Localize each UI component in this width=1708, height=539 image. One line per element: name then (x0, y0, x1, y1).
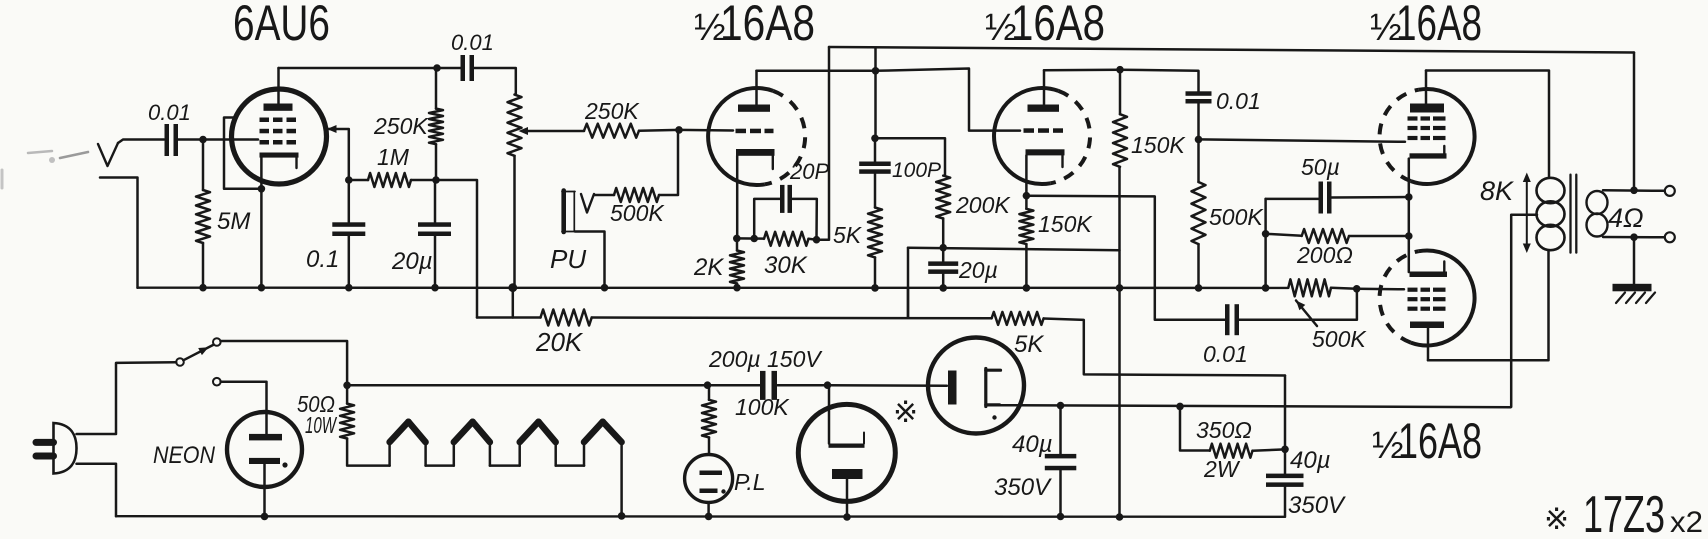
V4 plate bar (1410, 104, 1444, 113)
wire 6AU6 plate line (279, 67, 438, 70)
wire 150K1 bottom riser (1118, 167, 1121, 517)
wire to 200u cap (708, 384, 761, 387)
wire B+ line (1000, 405, 1511, 407)
node 200ohm left (1262, 230, 1270, 238)
V4 cathode lead (1408, 159, 1411, 197)
svg-text:30K: 30K (764, 252, 808, 279)
capacitor 40u 350V second (1266, 376, 1346, 520)
node secondary bottom (1630, 233, 1638, 241)
resistor 250K (plate load) (373, 68, 443, 180)
pot wiper arrow (1296, 301, 1317, 327)
P.L bottom lead (707, 503, 710, 517)
resistor 30K (764, 232, 817, 279)
terminal 4ohm top (1665, 186, 1675, 196)
wire grid node to 6AU6 grid (203, 138, 258, 141)
wire V3 plate line (1044, 68, 1120, 71)
tube V1 6AU6 envelope (232, 89, 327, 184)
svg-text:200µ 150V: 200µ 150V (708, 346, 823, 372)
label NEON (153, 442, 216, 469)
node 350ohm/40u2 (1281, 446, 1289, 454)
svg-text:20P: 20P (789, 159, 829, 184)
node rectifier V6 plate (824, 381, 832, 389)
tube V4 1/2 16A8 output upper (1380, 89, 1475, 184)
heater chain (390, 422, 622, 516)
label P.L (734, 469, 766, 495)
svg-text:NEON: NEON (153, 442, 216, 469)
node V3 cathode (1023, 192, 1031, 200)
node 5M to ground rail (199, 284, 207, 292)
node 40u1 ground (1057, 513, 1065, 521)
capacitor 50u (cathode bypass) (1266, 154, 1409, 214)
label half-16A8 lower (1372, 413, 1482, 469)
wiper arrow into pot (519, 127, 585, 135)
label 5K bottom (1014, 331, 1044, 358)
wire bias jog down (907, 248, 910, 318)
6AU6 grid dashes (260, 118, 297, 145)
wire to V2 grid (679, 129, 733, 132)
svg-text:6AU6: 6AU6 (233, 0, 330, 51)
svg-text:16A8: 16A8 (1011, 0, 1105, 51)
node V2 cathode (733, 235, 741, 243)
V5 grid dashes (1408, 288, 1446, 311)
wire rail tie-down (907, 288, 910, 318)
label 500K pot (1312, 326, 1367, 352)
svg-text:500K: 500K (610, 200, 665, 226)
V2 plate lead (755, 71, 758, 105)
V7 cathode bar (948, 371, 957, 405)
svg-text:5K: 5K (833, 222, 863, 248)
transformer secondary winding (1587, 191, 1608, 237)
resistor 150K (V3 plate load) (1113, 70, 1186, 167)
V6 cathode lead (846, 479, 849, 517)
node riser/ground-rail (1116, 284, 1124, 292)
switch throw contact (213, 338, 221, 346)
label 6AU6 (233, 0, 330, 51)
lamp NEON envelope (227, 412, 302, 487)
V3 grid dashes (1024, 128, 1064, 133)
wire 0.01 to volume pot (474, 68, 516, 95)
svg-text:350V: 350V (1288, 492, 1346, 519)
node 500K ground (1195, 284, 1203, 292)
node 200ohm right (1405, 232, 1413, 240)
resistor 150K (V3 cathode) (1019, 209, 1093, 288)
svg-text:10W: 10W (305, 412, 337, 438)
resistor 500K (PU mix) (594, 130, 678, 226)
node 40u1 top (1057, 402, 1065, 410)
6AU6 cathode bar (260, 153, 299, 169)
capacitor 0.01 (coupling to V4) (1186, 88, 1261, 139)
node 50ohm top (343, 382, 351, 390)
tube V5 1/2 16A8 output lower (1380, 250, 1475, 345)
switch hinge contact (176, 358, 184, 366)
wire primary center tap (1511, 215, 1537, 407)
svg-text:150K: 150K (1038, 211, 1093, 237)
node 2K ground (733, 284, 741, 292)
wire PU sleeve to ground (575, 232, 605, 288)
V6 plate lead (828, 385, 831, 443)
node PU ground (601, 284, 609, 292)
wire V2 plate to V3 grid (876, 69, 1021, 131)
tube V7 rectifier 17Z3 envelope (928, 338, 1024, 434)
wire V3 cathode to inverter (1026, 196, 1225, 320)
svg-text:※: ※ (893, 396, 918, 429)
resistor 50ohm 10W (297, 385, 390, 465)
svg-text:50µ: 50µ (1301, 154, 1340, 180)
ground rail (top section) (138, 287, 1289, 290)
label half-16A8 first (694, 0, 815, 51)
svg-text:250K: 250K (373, 113, 429, 139)
bottom rail (116, 515, 1285, 518)
node plate line / 250K (433, 64, 441, 72)
capacitor 20P loop (754, 159, 829, 240)
wire secondary top (1603, 189, 1665, 192)
node 100P top (871, 135, 879, 143)
wire feedback riser (817, 47, 830, 240)
wire secondary bottom (1603, 236, 1665, 239)
wire screen dropper line (477, 310, 1285, 376)
node 100K top (704, 381, 712, 389)
transformer core (1571, 175, 1577, 253)
wire into V7 (828, 384, 948, 387)
transformer primary winding (1537, 178, 1565, 250)
tube V2 1/2 16A8 envelope (708, 88, 805, 185)
wire screen tap with arrow (327, 125, 349, 180)
input ground lead (100, 178, 138, 288)
svg-text:2W: 2W (1203, 456, 1241, 482)
svg-text:350Ω: 350Ω (1196, 417, 1252, 443)
6AU6 plate bar (264, 104, 293, 111)
lamp P.L pilot (685, 455, 733, 503)
wire switched line (347, 384, 707, 387)
svg-text:4Ω: 4Ω (1608, 203, 1644, 233)
node 0.01/500K/grid (1195, 136, 1203, 144)
input jack tip symbol V (98, 143, 118, 166)
node 200K/20u (939, 244, 947, 252)
node NEON ground (261, 513, 269, 521)
svg-text:0.01: 0.01 (451, 30, 494, 55)
AC plug body (54, 423, 77, 474)
node 350ohm left (1176, 403, 1184, 411)
capacitor 0.01 (plate coupling) (451, 30, 494, 81)
svg-text:2K: 2K (693, 254, 724, 281)
node 0.1 ground (345, 284, 353, 292)
resistor 350ohm 2W (1180, 406, 1285, 482)
node 30K left (750, 235, 758, 243)
label 20K (535, 327, 584, 357)
switch blade (183, 345, 213, 360)
AC plug prongs (36, 442, 54, 456)
wire shared cathode to V5 (1408, 197, 1411, 272)
node 30K right (813, 236, 821, 244)
terminal 4ohm bottom (1665, 232, 1675, 242)
label 17Z3 note (1544, 486, 1703, 539)
svg-text:16A8: 16A8 (1398, 413, 1482, 469)
V3 cathode lead (1025, 155, 1028, 208)
V2 cathode bar (736, 149, 775, 169)
svg-text:8K: 8K (1480, 176, 1514, 206)
V2 plate bar (738, 105, 770, 112)
capacitor 100P (859, 138, 941, 207)
wire bias line 248 (908, 248, 1120, 251)
wire neon contact lead (221, 382, 267, 434)
svg-text:40µ: 40µ (1290, 447, 1331, 474)
node mix grid (675, 126, 683, 134)
svg-text:0.01: 0.01 (1216, 88, 1261, 114)
svg-text:500K: 500K (1312, 326, 1367, 352)
wire input to coupling cap (118, 140, 164, 144)
wire feedback down to secondary (1633, 53, 1636, 191)
8K impedance arrow (1480, 173, 1531, 254)
node V4 cathode/50u (1405, 193, 1413, 201)
resistor 200 ohm (shared cathode) (1266, 229, 1409, 268)
capacitor 20u (decoupling) (391, 180, 451, 288)
wire to V4 grid (1199, 139, 1406, 141)
node screen/0.1 (345, 176, 353, 184)
resistor 2K (V2 cathode) (693, 238, 744, 287)
6AU6 plate lead (277, 68, 280, 105)
node 5K ground (871, 284, 879, 292)
svg-text:40µ: 40µ (1012, 431, 1053, 458)
V6 plate bar (829, 433, 865, 448)
switch neon contact (213, 378, 221, 386)
resistor 5K (V2 plate chain) (833, 208, 882, 288)
potentiometer 500K (phase balance) (1288, 279, 1356, 296)
ground symbol (1613, 284, 1656, 303)
capacitor 40u 350V first (994, 406, 1076, 517)
potentiometer 250K volume (508, 95, 522, 318)
V3 cathode bar (1026, 149, 1065, 167)
node input grid (199, 136, 207, 144)
wire secondary to ground (1633, 237, 1636, 284)
node riser ground (1262, 284, 1270, 292)
label half-16A8 third (1370, 0, 1482, 51)
label 4 ohm (1608, 203, 1644, 233)
capacitor 0.01 (inverter feed) (1203, 304, 1248, 367)
svg-text:20µ: 20µ (958, 257, 998, 283)
resistor 100K (702, 385, 790, 454)
wire inverter cap to pot (1239, 289, 1357, 320)
wire cathode to 30K (737, 237, 764, 240)
node V6 ground (843, 513, 851, 521)
svg-text:20µ: 20µ (391, 248, 433, 275)
svg-text:1M: 1M (377, 144, 410, 170)
node B 1M/250K/20u (432, 176, 440, 184)
V7 plate bracket (986, 369, 1001, 420)
tube V3 1/2 16A8 envelope (994, 88, 1090, 184)
label PU (550, 244, 586, 274)
svg-text:200K: 200K (955, 192, 1011, 218)
svg-text:※: ※ (1544, 503, 1569, 536)
resistor 5M (grid leak) (196, 140, 250, 288)
node riser/bottom-rail (1116, 513, 1124, 521)
wire to 0.01 cap (437, 67, 461, 70)
wire switch to 50ohm (221, 341, 348, 385)
resistor 200K (936, 176, 1011, 248)
wire feedback top line (829, 47, 1634, 53)
V5 cathode bar (1410, 262, 1448, 278)
tube V6 rectifier 17Z3 envelope (798, 404, 895, 501)
V3 plate lead (1043, 70, 1046, 104)
node V2 plate (872, 67, 880, 75)
V6 cathode bar (832, 469, 863, 479)
reference mark for 17Z3 (893, 396, 918, 429)
wire V4 plate to transformer (1426, 71, 1549, 177)
svg-text:17Z3: 17Z3 (1583, 486, 1665, 539)
wire V5 plate to transformer (1428, 251, 1549, 360)
resistor 1M (screen dropper) (349, 144, 436, 187)
svg-text:PU: PU (550, 244, 586, 274)
svg-text:0.01: 0.01 (1203, 341, 1248, 367)
capacitor 200u 150V (708, 346, 823, 400)
wire plate to 0.01 (1120, 70, 1199, 92)
wire g3 tie to cathode (224, 118, 258, 189)
wire node to 200K (875, 138, 945, 175)
label half-16A8 second (985, 0, 1105, 51)
resistor 250K (radio mix) (584, 98, 679, 138)
capacitor 20u (second) (928, 248, 998, 288)
NEON electrodes (249, 434, 288, 468)
V4 plate lead (1425, 71, 1428, 104)
wire node B to dropper line (436, 180, 477, 318)
svg-text:350V: 350V (994, 474, 1052, 501)
node 20u ground (431, 284, 439, 292)
V4 grid dashes (1408, 116, 1446, 140)
svg-text:0.1: 0.1 (306, 246, 339, 273)
svg-text:100P: 100P (892, 159, 941, 182)
capacitor 0.01 (input coupling) (148, 100, 191, 156)
node cathode ground (258, 284, 266, 292)
PU jack symbol (562, 191, 594, 233)
svg-text:250K: 250K (584, 98, 640, 124)
V2 cathode lead (736, 156, 739, 239)
wire V2 plate line (757, 70, 876, 73)
svg-text:200Ω: 200Ω (1296, 242, 1353, 268)
svg-text:5M: 5M (217, 208, 250, 235)
wire cap to grid node (178, 138, 203, 141)
V2 grid dashes (736, 129, 774, 134)
node V3 plate (1116, 66, 1124, 74)
svg-text:500K: 500K (1209, 204, 1264, 230)
faint input-lead scan marks (2, 151, 88, 188)
svg-text:20K: 20K (535, 327, 584, 357)
svg-text:16A8: 16A8 (720, 0, 815, 51)
node heater to rail (618, 512, 626, 520)
node cathode/g3 junction (258, 185, 266, 193)
svg-text:150K: 150K (1131, 132, 1186, 158)
node secondary top (1630, 187, 1638, 195)
V4 cathode bar (1410, 146, 1447, 159)
svg-text:P.L: P.L (734, 469, 766, 495)
wire pot to V5 grid (1357, 288, 1404, 291)
node pot right / V5 grid (1353, 285, 1361, 293)
node 20u2 ground (939, 284, 947, 292)
NEON bottom lead (263, 464, 266, 516)
capacitor 0.1 (screen bypass) (306, 180, 365, 288)
V3 plate bar (1028, 105, 1060, 112)
svg-text:100K: 100K (735, 394, 790, 420)
wire plug to switch (77, 362, 177, 434)
svg-text:x2: x2 (1670, 506, 1703, 539)
svg-text:5K: 5K (1014, 331, 1044, 358)
wire 200u to rectifiers (778, 384, 828, 387)
V5 plate lead (1427, 328, 1430, 360)
wire plug to bottom rail (77, 464, 117, 517)
wire 50u left riser (1264, 199, 1267, 288)
node 150K2 ground (1023, 284, 1031, 292)
svg-text:0.01: 0.01 (148, 100, 191, 125)
svg-text:16A8: 16A8 (1396, 0, 1482, 51)
wire plate node riser (874, 48, 877, 138)
V5 plate bar (1410, 322, 1444, 329)
node P.L ground (705, 513, 713, 521)
node pot ground (diamond) (508, 283, 517, 292)
resistor 500K (V4 grid) (1192, 139, 1265, 288)
6AU6 cathode lead to ground (260, 158, 263, 288)
